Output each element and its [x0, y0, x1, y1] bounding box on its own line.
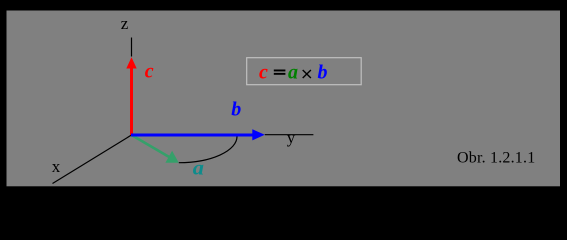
svg-text:a: a [193, 158, 204, 180]
vector b (blue) shaft [131, 134, 253, 137]
formula equals sign (two bars) [274, 70, 286, 72]
y axis line [265, 134, 314, 136]
angle arc between a and b [179, 137, 237, 163]
gray panel [7, 11, 561, 187]
vector b (blue) arrowhead [252, 129, 264, 140]
svg-text:b: b [231, 99, 241, 121]
svg-text:c: c [259, 62, 268, 84]
vector c (red) arrowhead [126, 57, 136, 68]
svg-text:y: y [287, 128, 296, 147]
svg-text:x: x [52, 157, 61, 176]
formula box [247, 58, 362, 85]
vector a (green) shaft [132, 135, 171, 158]
svg-text:a: a [288, 62, 298, 84]
svg-text:b: b [318, 62, 328, 84]
svg-text:z: z [121, 14, 129, 33]
x axis line [53, 135, 132, 184]
svg-text:Obr. 1.2.1.1: Obr. 1.2.1.1 [457, 150, 535, 167]
black frame background [0, 0, 567, 192]
svg-text:c: c [145, 61, 154, 83]
formula multiplication sign (cross) [303, 70, 311, 78]
vector a (green) arrowhead [165, 151, 178, 163]
vector c (red) shaft [130, 68, 133, 135]
z axis line [131, 38, 133, 57]
